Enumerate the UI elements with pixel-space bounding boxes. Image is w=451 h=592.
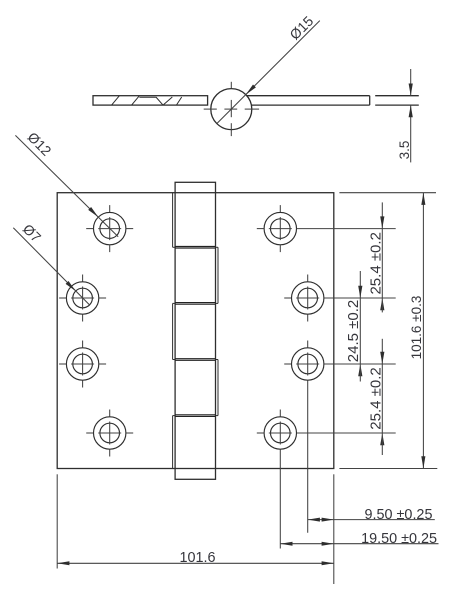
svg-text:Ø12: Ø12 — [25, 129, 55, 159]
ext line plate bottom-left — [56, 474, 58, 568]
dim 3.5 upper arrow — [409, 69, 413, 96]
svg-text:9.50 ±0.25: 9.50 ±0.25 — [365, 507, 433, 523]
knuckle circle — [211, 89, 252, 130]
circle centerline vertical — [230, 82, 232, 136]
hole 3 (dia12/dia7) — [59, 341, 106, 388]
leader line dia15 — [217, 21, 320, 124]
circle centerline horizontal — [204, 108, 259, 110]
dim 101.6 overall width — [57, 561, 334, 565]
top view left leaf bar — [93, 96, 208, 105]
left knuckle edge seg1 — [173, 193, 176, 248]
dim 24.5 (hole6-hole7) — [358, 271, 362, 382]
ext line plate bottom-right — [333, 474, 335, 584]
hole 8 (dia12/dia7) — [257, 410, 396, 549]
knuckle cut line e — [163, 97, 172, 105]
dim 19.50 (hole col to edge) — [280, 542, 438, 546]
knuckle joint 3 — [175, 359, 215, 361]
svg-text:25.4 ±0.2: 25.4 ±0.2 — [368, 232, 385, 294]
svg-text:24.5 ±0.2: 24.5 ±0.2 — [345, 300, 362, 362]
label 3.5 — [397, 141, 412, 160]
knuckle cut line b — [132, 96, 140, 105]
label dia15 — [286, 13, 316, 43]
label 9.50 — [365, 507, 433, 523]
svg-text:3.5: 3.5 — [397, 141, 412, 160]
bar continuation piece — [375, 96, 419, 105]
label dia12 — [25, 129, 55, 159]
label 19.50 — [361, 531, 437, 547]
knuckle cut line a — [112, 96, 120, 105]
hole 1 (dia12/dia7) — [86, 205, 133, 252]
svg-text:19.50 ±0.25: 19.50 ±0.25 — [361, 531, 437, 547]
hole 7 (dia12/dia7) — [284, 341, 396, 533]
left knuckle edge seg5 — [173, 416, 176, 469]
leader line dia7 — [13, 228, 89, 305]
hole 5 (dia12/dia7) — [257, 205, 396, 252]
knuckle cut line c — [139, 96, 156, 98]
ext line plate top — [339, 192, 436, 194]
left knuckle edge seg3 — [173, 303, 176, 359]
svg-text:101.6: 101.6 — [179, 550, 215, 566]
knuckle cut line d — [156, 97, 163, 105]
knuckle joint 1 — [175, 247, 215, 249]
svg-text:Ø7: Ø7 — [20, 221, 45, 246]
label 25.4 upper — [368, 232, 385, 294]
svg-text:101.6 ±0.3: 101.6 ±0.3 — [409, 296, 424, 360]
hole 6 (dia12/dia7) — [284, 275, 396, 322]
dim 9.50 (hole col to edge) — [308, 518, 435, 522]
label dia7 — [20, 221, 45, 246]
dim 25.4 top (hole5-hole6) — [380, 202, 384, 312]
label 24.5 — [345, 300, 362, 362]
knuckle joint 2 — [175, 303, 215, 305]
dim 25.4 bottom (hole7-hole8) — [380, 339, 384, 455]
dim 101.6 overall height — [421, 193, 425, 469]
label 25.4 lower — [368, 367, 385, 429]
hole 4 (dia12/dia7) — [86, 410, 133, 457]
top view right leaf bar — [247, 96, 370, 105]
dim 3.5 lower arrow — [409, 105, 413, 162]
ext line plate bottom — [339, 468, 437, 470]
leader line dia12 — [15, 135, 118, 236]
right knuckle edge seg4 — [216, 360, 219, 416]
label 101.6 +-0.3 — [409, 296, 424, 360]
svg-text:25.4 ±0.2: 25.4 ±0.2 — [368, 367, 385, 429]
knuckle joint 4 — [175, 415, 215, 417]
svg-text:Ø15: Ø15 — [286, 13, 316, 43]
hinge plate outline — [57, 193, 334, 469]
knuckle cut line f — [176, 97, 181, 105]
barrel outline — [175, 182, 215, 479]
right knuckle edge seg2 — [216, 247, 219, 303]
hole 2 (dia12/dia7) — [59, 275, 106, 322]
label 101.6 width — [179, 550, 215, 566]
